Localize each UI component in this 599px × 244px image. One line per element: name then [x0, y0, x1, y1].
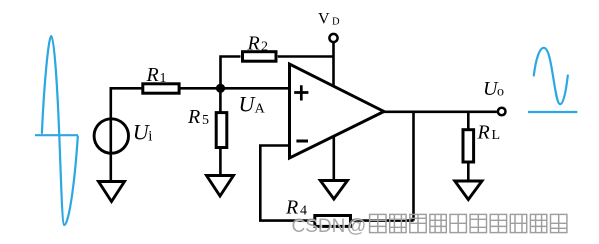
wire R5 to ground	[219, 147, 222, 176]
output waveform axis	[528, 111, 577, 113]
svg-text:CSDN: CSDN	[292, 216, 346, 237]
svg-text:5: 5	[202, 113, 209, 128]
svg-text:R: R	[187, 106, 200, 128]
wire - input to feedback	[260, 146, 413, 221]
resistor R5	[216, 113, 227, 148]
wire R2 to VD stem	[278, 55, 334, 58]
svg-text:V: V	[318, 11, 330, 28]
op-amp + input mark	[294, 85, 308, 100]
wire node A up to R2	[221, 57, 241, 90]
wire source stem vertical	[110, 87, 113, 182]
svg-text:D: D	[332, 17, 340, 28]
output wire	[384, 111, 497, 114]
svg-text:L: L	[492, 128, 501, 143]
resistor R4	[315, 216, 351, 227]
watermark CSDN	[292, 215, 368, 238]
input waveform sine	[42, 36, 78, 225]
svg-text:R: R	[146, 64, 159, 86]
svg-text:1: 1	[160, 71, 167, 86]
input waveform axis	[35, 134, 78, 136]
wire node A down to R5	[219, 88, 222, 114]
resistor R1	[143, 84, 179, 93]
Uo terminal circle	[498, 108, 506, 116]
svg-text:@: @	[347, 215, 367, 237]
watermark glyph blocks	[370, 214, 567, 232]
ground (source)	[99, 182, 125, 202]
voltage source U_i circle	[94, 119, 128, 153]
node A junction dot	[216, 84, 225, 93]
svg-text:i: i	[148, 129, 152, 145]
op-amp ground stem	[332, 137, 335, 181]
ground (R5)	[207, 176, 234, 197]
VD terminal circle	[329, 34, 337, 42]
svg-text:A: A	[255, 102, 266, 117]
ground (op-amp)	[320, 181, 347, 200]
feedback riser to output	[412, 112, 415, 221]
op-amp - input mark	[296, 140, 308, 143]
svg-text:R: R	[247, 32, 260, 54]
svg-text:2: 2	[261, 39, 268, 54]
op-amp U1 triangle	[290, 64, 385, 158]
RL to ground	[467, 161, 470, 181]
output waveform sine	[534, 48, 568, 104]
svg-text:o: o	[497, 85, 504, 100]
RL stem	[467, 112, 470, 131]
VD stem	[332, 43, 335, 88]
ground (RL)	[455, 181, 482, 200]
resistor RL	[463, 130, 474, 162]
wire source to R1	[111, 87, 145, 90]
svg-text:R: R	[477, 122, 490, 144]
wire R1 to op-amp (through node A)	[179, 87, 290, 90]
resistor R2	[243, 52, 277, 62]
